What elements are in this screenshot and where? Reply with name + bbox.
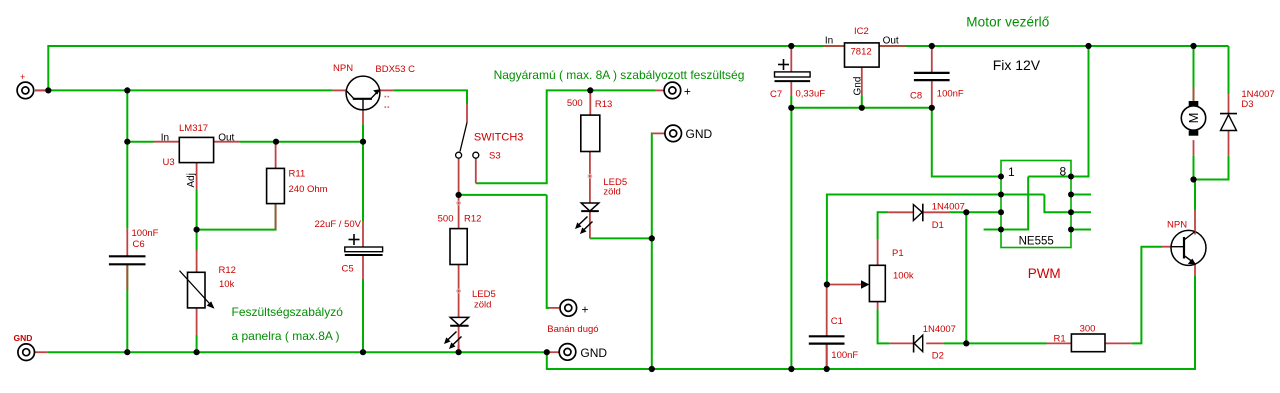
svg-text:7812: 7812 [851,47,872,58]
wire switch left contact branch [459,194,547,196]
svg-text:8: 8 [1060,165,1067,179]
wire red transistor base stub [362,110,364,124]
svg-text:P1: P1 [892,248,904,259]
svg-text:BDX53 C: BDX53 C [375,64,415,75]
wire D3 bottom row to motor junction [1194,156,1229,180]
wire red R11 top [275,142,277,169]
RED WIRE SEGMENTS [35,46,1229,369]
svg-text:Nagyáramú ( max. 8A ) szabályo: Nagyáramú ( max. 8A ) szabályozott feszü… [494,68,745,82]
wire red R12-500 bottom to LED [458,265,460,318]
wire C5 vertical [362,142,364,222]
wire transistor emitter to switch corner [393,90,467,104]
diode D3 [1220,114,1237,131]
resistor R12-500 body [450,229,467,265]
wire D3 top [1228,46,1230,94]
svg-text:M: M [1186,113,1201,124]
capacitor C8 plates [914,73,950,80]
wire red C8 bottom [931,80,933,108]
node wiper junction [824,281,830,287]
wire LED5 left bottom [458,345,460,352]
wire red D1 cathode [923,211,950,213]
wire motor bottom to junction [1193,156,1195,180]
svg-text:zöld: zöld [474,300,491,311]
wire red R12-500 top [458,195,460,229]
wire red Q2 base stub [1162,246,1171,248]
wire red C7 bottom [790,81,792,96]
wire banana plus feed [547,195,549,308]
wire adj row [197,190,276,230]
node D2 junction [963,340,969,346]
wire red D2 anode [926,342,943,344]
wire NE555 pin4 stub left [984,229,1001,231]
wire red transistor collector stub [333,89,346,91]
wire red D3 top [1228,94,1230,114]
svg-text:D1: D1 [932,220,944,231]
node adj junction [194,227,200,233]
node C7 bus junction [788,366,794,372]
potentiometer P1 body [861,265,885,301]
svg-text:GND: GND [14,333,33,343]
node D1 junction [963,209,969,215]
svg-text:a panelra ( max.8A ): a panelra ( max.8A ) [232,329,340,343]
node 7812 gnd junction [859,105,865,111]
svg-text:+: + [20,72,25,82]
wire C1 lower to bus [826,344,828,369]
wire P1 bottom feed [878,310,890,343]
svg-text:U3: U3 [163,157,175,168]
wire red motor bottom [1193,140,1195,156]
wire red R1 right [1105,342,1132,344]
wire red LM317 adj stub [196,163,198,190]
node gnd step junction [544,349,550,355]
capacitor C7 electrolytic [775,59,811,81]
pin circle marker R13 [588,174,592,178]
diode D1 [913,204,922,222]
node C6 bus junction [124,349,130,355]
wire pot R12 top [196,230,198,250]
svg-text:R1: R1 [1054,334,1066,345]
wire red motor top [1193,88,1195,101]
node R12 bus junction [194,349,200,355]
node C8 rail junction [929,43,935,49]
wire red P1 bottom [877,302,879,310]
svg-text:GND: GND [580,346,607,360]
svg-text:100nF: 100nF [831,350,858,361]
node C7 rail junction [788,43,794,49]
LED LED5 left [444,317,469,349]
motor M1 [1181,101,1205,136]
wire C5 bottom to bus [362,279,364,352]
wire C8 to NE555 pin1 [932,108,1001,177]
svg-text:Gnd: Gnd [853,77,864,96]
svg-text:C5: C5 [342,264,354,275]
wire red D2 cathode [889,342,914,344]
wire NE555 right stub row2 [1071,194,1091,196]
svg-text:R12: R12 [464,214,481,225]
wire red switch top [466,104,468,123]
wire red R13 LED bottom [589,211,591,238]
svg-text:S3: S3 [489,151,501,162]
wire red stub gnd terminal left [35,351,48,353]
terminal GND left [18,344,35,361]
terminal + input [17,82,34,99]
svg-text:PWM: PWM [1028,266,1061,281]
node C5 bus junction [360,349,366,355]
svg-text:LM317: LM317 [179,123,208,134]
svg-text:C6: C6 [133,239,145,250]
wire red output plus stub [655,89,664,91]
wire NE555 pin8 feed [1071,46,1089,177]
wire red C6 lower [126,264,128,289]
wire red transistor emitter stub [380,89,393,91]
wire NE555 pin2 row [827,195,1045,285]
wire red 7812 out stub [879,45,905,47]
resistor R11 body [267,168,285,203]
node LM317 feed junction [124,87,130,93]
wire transistor base down [362,124,364,142]
wire red D3 bottom [1228,131,1230,156]
wire red pot R12 lower [196,308,198,335]
wire red switch left contact down [458,158,460,195]
svg-text:R11: R11 [289,169,306,180]
svg-text:Out: Out [883,36,899,47]
wire red C1 wiper vertical [826,285,828,306]
wire pot R12 bottom [196,335,198,352]
wire NE555 right stub row4 [1071,229,1091,231]
wire LM317 input vertical [126,90,128,228]
wire red R13 top [589,90,591,115]
svg-text:R12: R12 [219,265,236,276]
wire C7 gnd vertical to bus [790,108,792,369]
wire gnd-out vertical [651,133,653,369]
node pin8 rail junction [1085,43,1091,49]
svg-text:10k: 10k [219,279,235,290]
node switch lower junction [456,192,462,198]
node C1 bus junction [824,366,830,372]
wire red C1 top [826,305,828,336]
wire D2 to R1 row [944,342,1047,344]
svg-text:1N4007: 1N4007 [923,324,956,335]
svg-text:1: 1 [1008,165,1015,179]
node motor bottom junction [1190,176,1196,182]
wire red LED5 left bottom [458,326,460,353]
wire NE555 right stub row3 [1071,211,1091,213]
node LED R13 row junction [649,235,655,241]
svg-text:C1: C1 [831,316,843,327]
node base junction [360,139,366,145]
wire red C7 top [790,46,792,72]
node C7 gnd junction [788,105,794,111]
svg-text:C8: C8 [910,91,922,102]
wire bus step down [547,276,1195,369]
wire red gnd bottom stub [547,351,559,353]
wire red LM317 out stub [214,141,240,143]
capacitor C5 electrolytic [345,234,383,255]
svg-text:IC2: IC2 [854,26,869,37]
wire R1 right corner up to Q2 base [1132,247,1162,344]
wire red P1 wiper [827,284,863,286]
wire red Q2 collector stub [1194,210,1196,231]
svg-text:D2: D2 [932,351,944,362]
wire top rail [48,46,1228,90]
svg-text:Feszültségszabályzó: Feszültségszabályzó [232,305,344,319]
transistor Q2 NPN [1171,230,1206,265]
svg-text:NPN: NPN [333,63,353,74]
wire red C8 top [931,46,933,73]
svg-text:In: In [161,133,169,144]
svg-text:Fix 12V: Fix 12V [993,57,1041,73]
wire red switch right contact down [475,158,477,183]
svg-text:R13: R13 [595,99,612,110]
svg-text:zöld: zöld [603,187,620,198]
svg-text:NE555: NE555 [1019,236,1054,248]
pin circle marker LED left [457,289,461,293]
svg-text:LED5: LED5 [472,289,496,300]
wire red C6 upper [126,228,128,256]
wire gnd row under 7812 [791,107,932,109]
node R13 branch junction [587,87,593,93]
wire motor top [1193,46,1195,101]
node LED5 bus junction [456,349,462,355]
svg-text:100nF: 100nF [132,228,159,239]
wire R13 LED bottom row [590,237,652,239]
resistor R1 body [1071,334,1105,352]
wire red pot R12 upper [196,250,198,272]
svg-text:In: In [825,36,833,47]
wire red D1 anode [888,211,913,213]
svg-text:Out: Out [218,133,234,144]
wire red LM317 in stub [154,141,179,143]
terminal + output [664,82,681,99]
svg-text:SWITCH3: SWITCH3 [474,132,524,144]
wire C6 bottom to bus [126,264,128,352]
wire red R1 left [1047,342,1072,344]
wire bottom-left bus [47,351,547,353]
wire main rail from + terminal to transistor [35,89,333,91]
svg-text:NPN: NPN [1167,220,1187,231]
LED LED5 right [575,203,599,234]
wire P1 top feed [878,212,889,239]
svg-text:500: 500 [567,98,583,109]
svg-text:22uF / 50V: 22uF / 50V [315,219,362,230]
potentiometer R12 body [180,271,215,309]
wire red stub plus terminal [35,89,48,91]
wire D1 junction down to D2 junction [965,212,967,343]
svg-text:Adj: Adj [186,173,197,187]
svg-text:300: 300 [1080,324,1096,335]
capacitor C6 plates [109,256,146,264]
wire Q2 collector [1194,180,1196,211]
svg-text:+: + [684,85,691,99]
terminal GND bottom [559,344,576,361]
svg-text:C7: C7 [770,89,782,100]
wire red P1 top [877,240,879,266]
wire red 7812 gnd pin [861,67,863,95]
wire switch right contact branch [476,90,655,183]
node In row junction [124,139,130,145]
wire red 7812 in stub [823,45,844,47]
transistor Q1 BDX53C [346,76,389,110]
node motor rail junction [1190,43,1196,49]
wire D1 to junction and pin3 [950,211,1001,213]
wire Out row [239,141,363,143]
wire red R13 bottom to LED [589,152,591,204]
node R11 top junction [273,139,279,145]
svg-text:0,33uF: 0,33uF [796,89,826,100]
node plus terminal junction [45,87,51,93]
switch S3 [456,123,479,159]
svg-text:240 Ohm: 240 Ohm [289,184,328,195]
svg-text:+: + [582,303,589,317]
capacitor C1 plates [809,336,845,343]
diode D2 [914,335,923,353]
svg-text:GND: GND [686,127,713,141]
wire red R11 bottom [275,204,277,230]
wire red Q2 emitter stub [1194,265,1196,277]
svg-text:500: 500 [438,214,454,225]
resistor R13 body [581,115,600,151]
wire 7812 gnd pin lower [861,95,863,108]
wire C7 branch lower [790,96,792,108]
wire red C5 upper [362,222,364,247]
node gnd-out bus junction [649,366,655,372]
IC NE555 body and pins [998,161,1074,248]
node C8 gnd junction [929,105,935,111]
svg-text:1N4007: 1N4007 [932,202,965,213]
wire red banana plus stub [549,307,559,309]
wire red C5 lower [362,255,364,279]
terminal banana plus [560,300,577,317]
svg-text:Motor vezérlő: Motor vezérlő [966,15,1049,30]
svg-text:100k: 100k [893,271,914,282]
svg-text:D3: D3 [1241,99,1253,110]
wire red gnd-out stub [652,132,665,134]
wire red C1 bottom [826,344,828,369]
regulator IC2 7812 body [845,43,880,67]
regulator U3 LM317 body [179,137,213,162]
pin circle marker R12 top [457,201,461,205]
svg-text:Banán dugó: Banán dugó [547,324,598,335]
terminal GND output [665,125,682,142]
svg-text:100nF: 100nF [937,89,964,100]
wire In row [127,141,154,143]
